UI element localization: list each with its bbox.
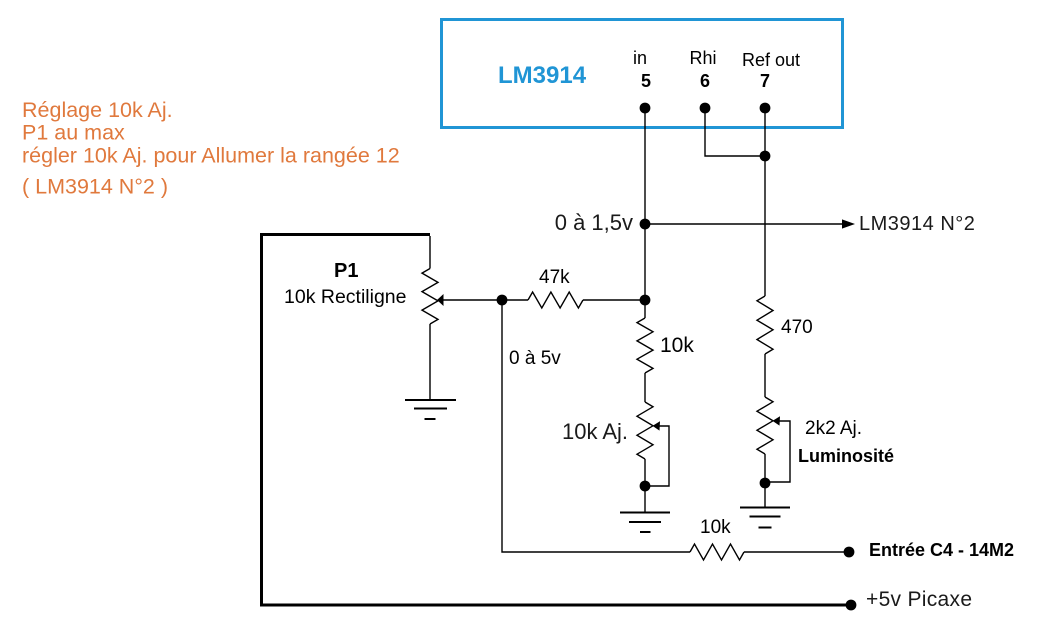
wire P1 bottom lead to ground [429, 324, 431, 399]
svg-text:LM3914 N°2: LM3914 N°2 [859, 213, 975, 235]
wire P1 box left (thick) [260, 233, 263, 605]
resistor 470 [757, 296, 773, 354]
svg-text:régler 10k Aj. pour Allumer la: régler 10k Aj. pour Allumer la rangée 12 [22, 144, 400, 168]
wire wiper P1 to node with arrowhead [437, 294, 502, 306]
resistor 47k [502, 292, 645, 308]
pin label Rhi [689, 48, 716, 68]
note text Réglage [22, 98, 400, 199]
svg-text:P1 au max: P1 au max [22, 121, 125, 145]
node Entrée C4 [844, 547, 855, 558]
potentiometer P1 zigzag [422, 269, 438, 325]
pin number 7 [760, 71, 770, 91]
svg-text:Entrée C4 - 14M2: Entrée C4 - 14M2 [869, 540, 1014, 560]
junction pin6-pin7 [760, 151, 771, 162]
svg-text:( LM3914 N°2 ): ( LM3914 N°2 ) [22, 175, 168, 199]
svg-text:Luminosité: Luminosité [798, 446, 894, 466]
trimmer 10k Aj. wiper arrow and bracket [650, 421, 669, 486]
wire +5v bottom (thick) [260, 604, 851, 607]
label 0 à 1,5v [555, 210, 633, 235]
ground 2k2 [740, 508, 790, 528]
svg-text:0 à 5v: 0 à 5v [509, 348, 561, 369]
svg-text:Ref out: Ref out [742, 50, 800, 70]
wire pin6 to pin7 net [705, 108, 765, 156]
label LM3914 N°2 [859, 213, 975, 235]
wire 470 to trimmer 2k2 [764, 354, 766, 397]
svg-text:LM3914: LM3914 [498, 62, 587, 89]
svg-text:Rhi: Rhi [689, 48, 716, 68]
pin label Ref out [742, 50, 800, 70]
node +5v Picaxe [846, 600, 857, 611]
svg-text:P1: P1 [334, 260, 358, 282]
wire P1 box top (thick) [260, 233, 430, 236]
junction trimmer 10k Aj. bottom [640, 481, 651, 492]
svg-text:10k: 10k [700, 517, 731, 538]
svg-text:7: 7 [760, 71, 770, 91]
label +5v Picaxe [866, 588, 972, 611]
pin 6 terminal [700, 103, 711, 114]
label P1 [334, 260, 358, 282]
svg-text:Réglage 10k Aj.: Réglage 10k Aj. [22, 98, 173, 122]
trimmer 10k Aj. zigzag [637, 402, 653, 459]
label 10k Aj. [562, 419, 628, 444]
ground 10k Aj. [620, 513, 670, 533]
svg-text:+5v Picaxe: +5v Picaxe [866, 588, 972, 611]
svg-text:2k2 Aj.: 2k2 Aj. [805, 418, 862, 439]
wire pin7 vertical to 470 [764, 108, 766, 296]
svg-text:5: 5 [641, 71, 651, 91]
svg-text:470: 470 [781, 317, 813, 338]
pin label in [633, 48, 647, 68]
label Luminosité [798, 446, 894, 466]
pin 7 terminal [760, 103, 771, 114]
wire trimmer 2k2 bottom [764, 454, 766, 507]
label 47k [539, 267, 570, 288]
label 2k2 Aj. [805, 418, 862, 439]
ground P1 [405, 400, 456, 419]
label Entrée C4 - 14M2 [869, 540, 1014, 560]
node wiper 0 à 5v [497, 295, 508, 306]
wire 0 à 5v vertical down to bottom row [502, 300, 690, 552]
label 10k (vertical resistor) [660, 334, 694, 357]
wire trimmer 10k Aj. bottom [644, 459, 646, 512]
svg-text:10k Aj.: 10k Aj. [562, 419, 628, 444]
IC U1 LM3914 box [442, 20, 843, 128]
pin number 6 [700, 71, 710, 91]
label 470 [781, 317, 813, 338]
junction trimmer 2k2 bottom [760, 478, 771, 489]
junction 47k right [640, 295, 651, 306]
svg-text:10k: 10k [660, 334, 694, 357]
trimmer 2k2 Aj. wiper arrow and bracket [770, 416, 790, 482]
label 10k (bottom resistor) [700, 517, 731, 538]
svg-text:6: 6 [700, 71, 710, 91]
wire P1 top lead [429, 236, 431, 269]
wire bottom row to Entrée node [744, 551, 849, 553]
label 10k Rectiligne [284, 286, 406, 308]
resistor 10k bottom [690, 544, 744, 560]
svg-text:in: in [633, 48, 647, 68]
wire node 0a1,5v to LM3914 N°2 arrow [645, 219, 855, 228]
pin 5 terminal [640, 103, 651, 114]
svg-text:0 à 1,5v: 0 à 1,5v [555, 210, 633, 235]
pin number 5 [641, 71, 651, 91]
trimmer 2k2 Aj. zigzag [757, 397, 773, 454]
svg-text:10k Rectiligne: 10k Rectiligne [284, 286, 406, 308]
wire pin5 vertical to node row [644, 108, 646, 318]
label 0 à 5v [509, 348, 561, 369]
resistor 10k vertical [637, 318, 653, 373]
wire 10k to trimmer [644, 373, 646, 402]
node 0 à 1,5v [640, 219, 651, 230]
svg-text:47k: 47k [539, 267, 570, 288]
label LM3914 [498, 62, 587, 89]
